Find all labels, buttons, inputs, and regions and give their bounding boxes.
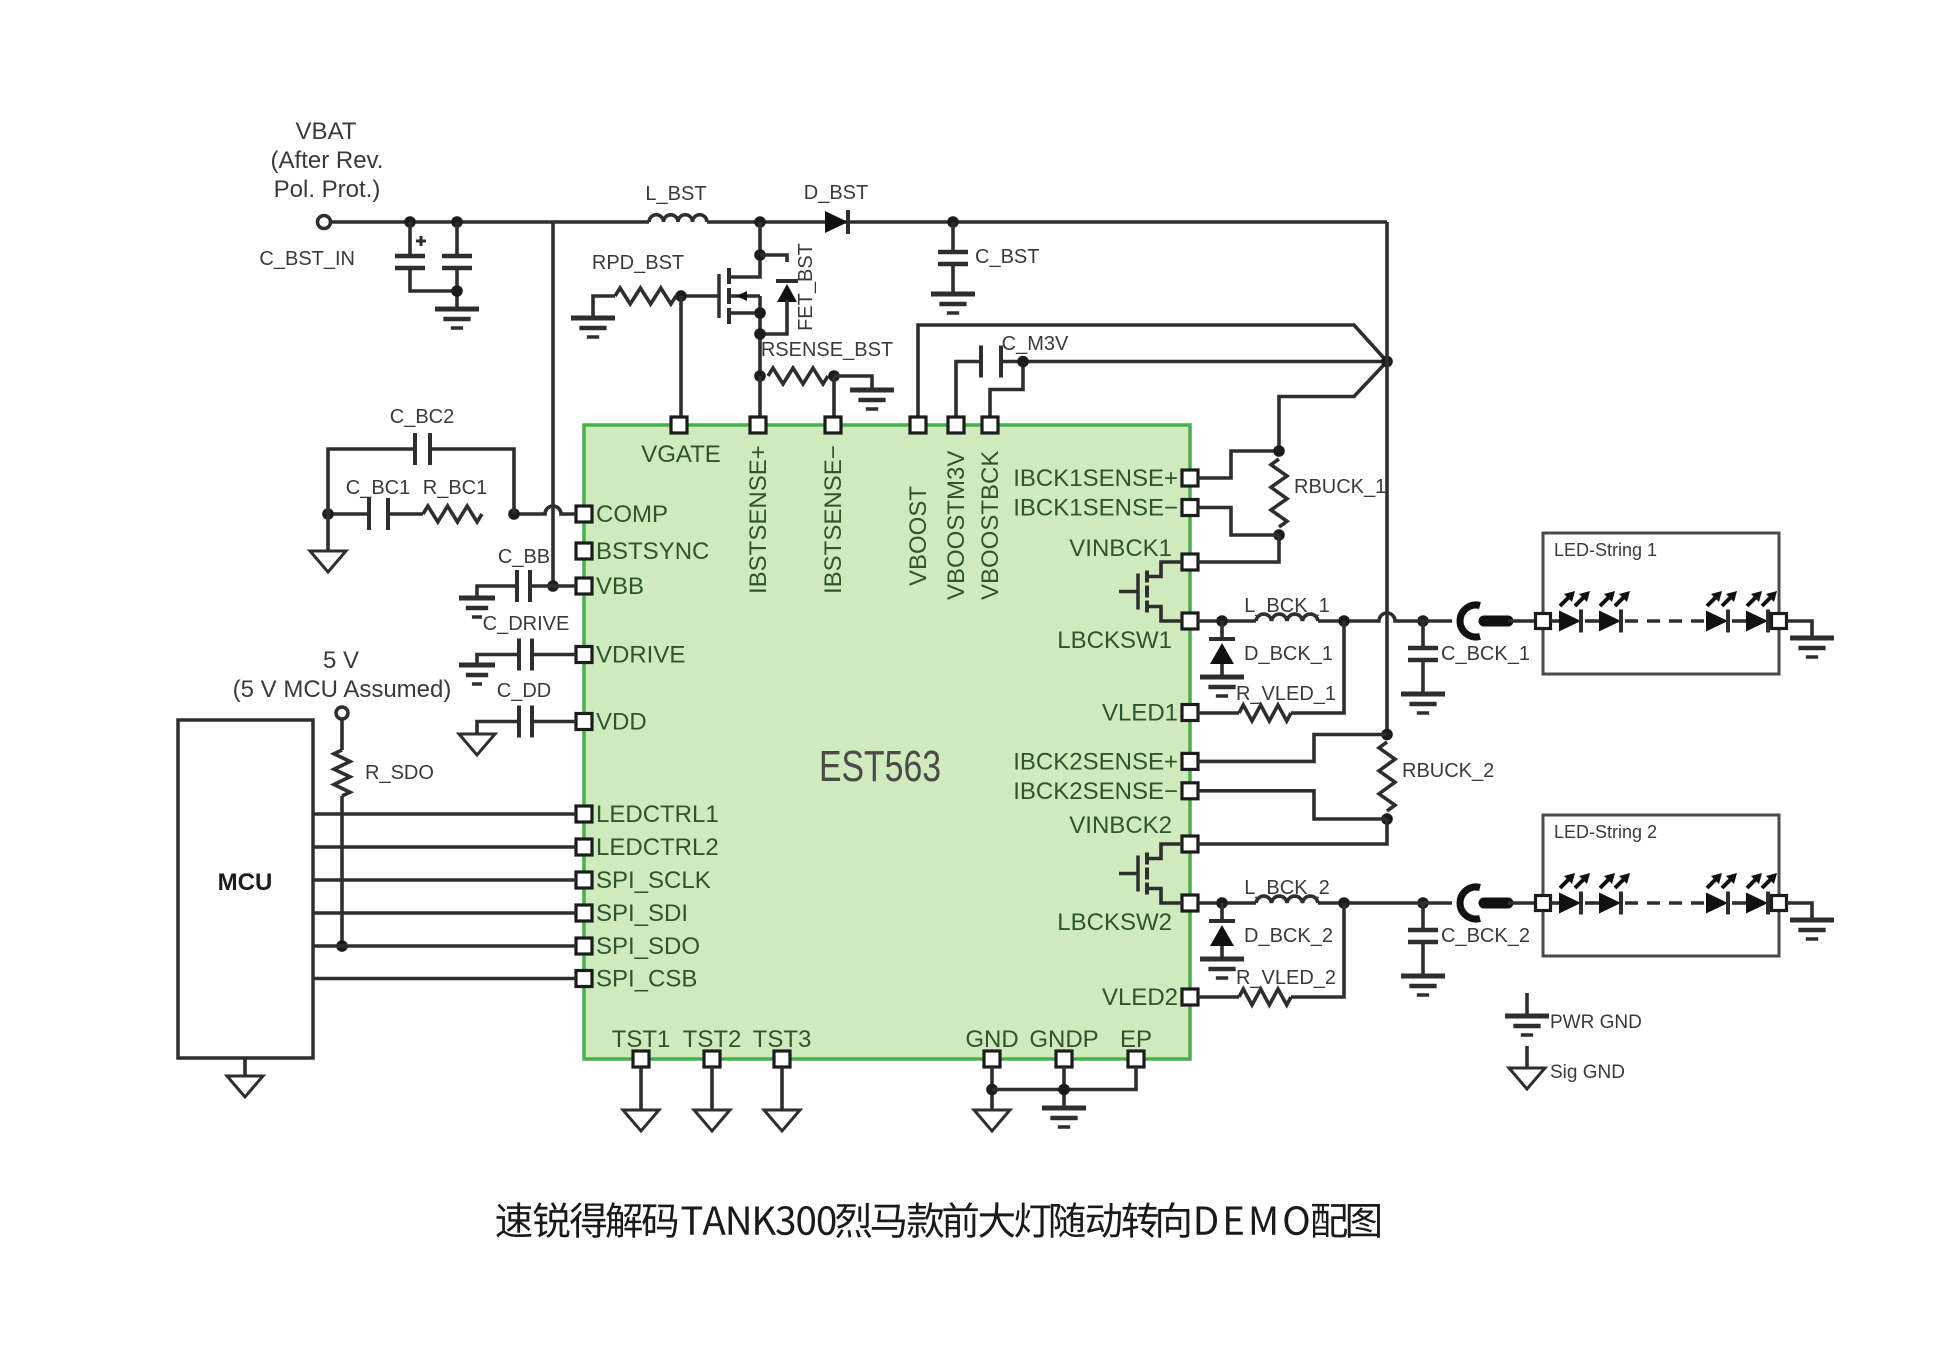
wire boost output vertical — [1385, 222, 1389, 735]
pin SPI_CSB — [576, 971, 592, 987]
wire D_BCK_1 anode lead — [1220, 664, 1224, 677]
wire RPD_BST left lead — [593, 296, 615, 318]
node junction RBUCK_2 bottom — [1381, 813, 1393, 825]
pin VBOOST — [910, 417, 926, 433]
wire VBAT branch to VBB — [551, 222, 555, 586]
svg-text:(5 V MCU Assumed): (5 V MCU Assumed) — [233, 676, 452, 703]
pin BSTSYNC — [576, 543, 592, 559]
pin LBCKSW2 — [1182, 895, 1198, 911]
svg-text:GND: GND — [965, 1026, 1018, 1053]
wire LED string2 to ground — [1787, 903, 1812, 920]
svg-text:IBSTSENSE+: IBSTSENSE+ — [745, 445, 772, 594]
pin VLED1 — [1182, 705, 1198, 721]
transistor Q_BUCK1 — [1136, 574, 1140, 610]
svg-text:C_BST_IN: C_BST_IN — [259, 248, 355, 270]
pin IBCK1SENSE&#8722; — [1182, 500, 1198, 516]
wire connector1 to LED string — [1508, 619, 1535, 623]
svg-text:R_VLED_1: R_VLED_1 — [1236, 683, 1336, 705]
node junction FET_BST source — [754, 307, 766, 319]
resistor R_VLED_1 — [1239, 705, 1291, 721]
node junction GNDP — [1058, 1084, 1070, 1096]
wire VBOOSTM3V lead — [956, 362, 981, 418]
wire VBOOSTBCK lead — [990, 362, 1023, 418]
pin LED-String1 in — [1536, 614, 1551, 629]
LED string 1 diodes — [1551, 619, 1559, 623]
ground LED string 1 — [1790, 636, 1834, 641]
svg-text:TST3: TST3 — [753, 1026, 812, 1053]
wire R_VLED_2 to VLED2 — [1198, 995, 1239, 999]
svg-text:LED-String 2: LED-String 2 — [1554, 822, 1657, 842]
wire to connector 1 — [1415, 619, 1452, 623]
op-amp U1 chip EST563 body — [584, 425, 1190, 1059]
svg-text:FET_BST: FET_BST — [795, 243, 817, 331]
ground TST1 — [623, 1110, 659, 1131]
wire TST3 gnd lead — [780, 1067, 784, 1110]
svg-text:Sig GND: Sig GND — [1550, 1062, 1625, 1083]
capacitor C_M3V — [981, 346, 1001, 378]
wire to connector 2 — [1415, 901, 1452, 905]
ground LED string 2 — [1790, 918, 1834, 923]
svg-text:VINBCK2: VINBCK2 — [1069, 812, 1172, 839]
svg-text:LEDCTRL2: LEDCTRL2 — [596, 834, 719, 861]
pin VLED2 — [1182, 989, 1198, 1005]
pin TST2 — [704, 1051, 720, 1067]
LED-String 1 box — [1543, 533, 1779, 674]
svg-text:L_BCK_1: L_BCK_1 — [1244, 595, 1330, 617]
wire 5V to R_SDO — [340, 719, 344, 750]
wire RPD_BST to gate — [676, 294, 719, 298]
MCU box — [178, 720, 313, 1058]
svg-text:VLED2: VLED2 — [1102, 984, 1178, 1011]
ground TST2 — [694, 1110, 730, 1131]
wire connector2 to LED string — [1508, 901, 1535, 905]
wire IBSTSENSE+ lead — [758, 376, 762, 417]
ground MCU — [227, 1076, 263, 1097]
wire C_BC1 to R_BC1 — [388, 512, 423, 516]
svg-text:C_BB: C_BB — [498, 546, 550, 568]
node junction C_BCK_1 — [1417, 615, 1429, 627]
wire C_BST_IN cap2 bottom lead — [455, 268, 459, 309]
pin IBCK2SENSE&#8722; — [1182, 783, 1198, 799]
svg-text:GNDP: GNDP — [1029, 1026, 1098, 1053]
wire IBCK2SENSE- net — [1198, 791, 1387, 819]
transistor FET_BST — [717, 274, 721, 318]
svg-text:TST1: TST1 — [612, 1026, 671, 1053]
pin IBSTSENSE+ — [750, 417, 766, 433]
capacitor C_BST_IN (polarized) — [395, 254, 425, 259]
diode FET_BST body diode — [776, 279, 798, 283]
resistor R_BC1 — [423, 506, 482, 522]
node junction C_BST — [947, 216, 959, 228]
svg-text:D_BCK_2: D_BCK_2 — [1244, 925, 1333, 947]
svg-text:L_BST: L_BST — [645, 183, 706, 205]
svg-text:SPI_SCLK: SPI_SCLK — [596, 867, 711, 894]
wire D_BCK_1 top lead — [1220, 621, 1224, 639]
ground C_BB — [459, 596, 495, 601]
pin VBB — [576, 578, 592, 594]
pin VGATE — [671, 417, 687, 433]
node junction C_BC2 left — [322, 508, 334, 520]
wire MCU to LEDCTRL2 — [313, 845, 576, 849]
node junction RSENSE_BST right — [828, 370, 840, 382]
wire IBCK1SENSE- net — [1198, 508, 1279, 536]
node junction R_SDO/SPI_SDO — [336, 940, 348, 952]
svg-text:IBCK2SENSE−: IBCK2SENSE− — [1013, 778, 1178, 805]
svg-text:(After Rev.: (After Rev. — [271, 147, 384, 174]
svg-text:VDD: VDD — [596, 709, 647, 736]
pin SPI_SCLK — [576, 872, 592, 888]
wire LBCKSW1 net b — [1318, 613, 1415, 621]
wire TST1 gnd lead — [639, 1067, 643, 1110]
ground C_DD — [459, 734, 495, 755]
inductor L_BST — [649, 215, 707, 222]
wire IBCK1SENSE+ net — [1198, 451, 1279, 478]
svg-text:D_BST: D_BST — [804, 182, 868, 204]
ground RSENSE_BST — [850, 388, 894, 393]
resistor RSENSE_BST — [768, 368, 828, 384]
svg-text:LBCKSW2: LBCKSW2 — [1057, 909, 1172, 936]
wire VBOOST net — [918, 325, 1387, 417]
wire C_BB gnd lead — [477, 586, 517, 598]
inductor L_BCK_1 — [1256, 614, 1318, 621]
svg-text:VBAT: VBAT — [296, 118, 357, 145]
wire VDD lead — [532, 720, 576, 724]
node VBOOST star point — [1381, 356, 1393, 368]
wire RSENSE_BST to ground — [834, 376, 872, 390]
ground D_BCK_1 — [1200, 675, 1244, 680]
node junction L_BCK_2 out — [1338, 897, 1350, 909]
wire LBCKSW2 net b — [1318, 901, 1415, 905]
node junction GND — [986, 1084, 998, 1096]
node junction boost/RBUCK_2 — [1381, 729, 1393, 741]
wire R_VLED_1 branch — [1291, 621, 1344, 713]
diode D_BST — [825, 211, 848, 233]
wire MCU to LEDCTRL1 — [313, 812, 576, 816]
resistor RBUCK_2 — [1379, 742, 1395, 811]
wire FET_BST body diode anode — [760, 300, 787, 334]
svg-text:C_DRIVE: C_DRIVE — [483, 613, 570, 635]
ground C_BCK_2 — [1401, 974, 1445, 979]
pin COMP — [576, 506, 592, 522]
svg-text:VGATE: VGATE — [641, 441, 721, 468]
ground C_BCK_1 — [1401, 692, 1445, 697]
wire GNDP lead — [1062, 1067, 1066, 1108]
capacitor C_BB — [517, 570, 530, 602]
svg-text:VBOOSTBCK: VBOOSTBCK — [977, 451, 1004, 600]
pin SPI_SDO — [576, 938, 592, 954]
pin SPI_SDI — [576, 905, 592, 921]
svg-text:R_SDO: R_SDO — [365, 762, 434, 784]
svg-text:BSTSYNC: BSTSYNC — [596, 538, 709, 565]
pin GND — [984, 1051, 1000, 1067]
pin TST3 — [774, 1051, 790, 1067]
wire VBOOSTBCK net — [1001, 360, 1387, 364]
resistor RPD_BST — [615, 288, 676, 304]
node junction C_BST_IN b — [451, 216, 463, 228]
node junction C_BCK_2 — [1417, 897, 1429, 909]
pin TST1 — [633, 1051, 649, 1067]
wire MCU to SPI_SDO — [313, 944, 576, 948]
svg-text:LEDCTRL1: LEDCTRL1 — [596, 801, 719, 828]
ground D_BCK_2 — [1200, 957, 1244, 962]
wire C_BST top lead — [951, 222, 955, 252]
ground GND (signal) — [974, 1110, 1010, 1131]
LED string 2 diodes — [1551, 901, 1559, 905]
wire R_VLED_2 branch — [1291, 903, 1344, 997]
svg-text:R_BC1: R_BC1 — [423, 477, 487, 499]
svg-text:IBCK2SENSE+: IBCK2SENSE+ — [1013, 748, 1178, 775]
wire R_SDO to SPI_SDO — [340, 796, 344, 946]
caption 速锐得解码TANK300烈马款前大灯随动转向DEMO配图 — [496, 1202, 1380, 1238]
node junction VGATE/RPD_BST — [675, 290, 687, 302]
wire FET_BST drain lead — [729, 222, 760, 277]
pin VDRIVE — [576, 647, 592, 663]
svg-text:Pol. Prot.): Pol. Prot.) — [274, 176, 381, 203]
node junction L_BCK_1 out — [1338, 615, 1350, 627]
svg-text:RPD_BST: RPD_BST — [592, 252, 684, 274]
connector J2 (ferrite bead) — [1460, 887, 1480, 919]
wire C_BST_IN cap1 top lead — [408, 222, 412, 256]
wire COMP left branch — [328, 512, 369, 516]
capacitor C_BC1 — [369, 498, 388, 530]
capacitor C_BST — [938, 250, 968, 255]
wire VGATE lead — [679, 296, 683, 417]
node junction VBB — [547, 580, 559, 592]
wire IBSTSENSE- lead — [832, 376, 836, 417]
svg-text:RBUCK_1: RBUCK_1 — [1294, 476, 1386, 498]
pin VINBCK1 — [1182, 554, 1198, 570]
node VBAT input terminal — [318, 216, 331, 229]
svg-text:C_BST: C_BST — [975, 246, 1039, 268]
diode D_BCK_1 — [1209, 637, 1235, 641]
svg-text:C_DD: C_DD — [497, 680, 551, 702]
node junction D_BCK_1 — [1216, 615, 1228, 627]
wire LBCKSW1 net a — [1198, 619, 1256, 623]
ground PWR GND symbol — [1525, 993, 1529, 1016]
wire VBB lead — [530, 584, 576, 588]
ground COMP network — [310, 551, 346, 572]
pin LEDCTRL1 — [576, 806, 592, 822]
pin IBCK1SENSE+ — [1182, 470, 1198, 486]
wire MCU to SPI_SCLK — [313, 878, 576, 882]
wire C_BC2 loop left — [328, 449, 415, 514]
svg-text:LBCKSW1: LBCKSW1 — [1057, 627, 1172, 654]
node junction C_BST_IN gnd — [451, 285, 463, 297]
wire COMP lead with hop — [514, 506, 576, 514]
svg-text:IBCK1SENSE−: IBCK1SENSE− — [1013, 495, 1178, 522]
capacitor C_DRIVE — [519, 639, 532, 671]
ground C_BST — [931, 292, 975, 297]
ground GNDP (power) — [1042, 1106, 1086, 1111]
svg-text:IBCK1SENSE+: IBCK1SENSE+ — [1013, 465, 1178, 492]
ground C_BST_IN — [435, 307, 479, 312]
svg-text:C_BC1: C_BC1 — [346, 477, 410, 499]
ground TST3 — [764, 1110, 800, 1131]
wire VBAT rail left — [331, 220, 650, 224]
node junction C_BST_IN a — [404, 216, 416, 228]
pin LED-String1 out — [1772, 614, 1787, 629]
svg-text:LED-String 1: LED-String 1 — [1554, 540, 1657, 560]
wire COMP gnd lead — [326, 514, 330, 551]
wire C_BCK_1 bottom lead — [1421, 660, 1425, 694]
pin IBCK2SENSE+ — [1182, 753, 1198, 769]
svg-text:RBUCK_2: RBUCK_2 — [1402, 760, 1494, 782]
svg-text:PWR GND: PWR GND — [1550, 1012, 1642, 1033]
wire C_BC2 loop right — [430, 449, 514, 514]
wire LBCKSW2 net a — [1198, 901, 1256, 905]
capacitor C_BCK_2 — [1408, 928, 1438, 933]
pin VDD — [576, 714, 592, 730]
ground C_DRIVE — [459, 663, 495, 668]
wire MCU to SPI_SDI — [313, 911, 576, 915]
svg-text:C_BCK_2: C_BCK_2 — [1441, 925, 1530, 947]
node junction C_M3V/VBOOSTBCK — [1017, 356, 1029, 368]
wire VBOOSTBCK branch to RBUCK_1 — [1279, 362, 1387, 452]
pin LED-String2 out — [1772, 896, 1787, 911]
wire VBAT rail right — [707, 220, 1387, 224]
resistor RBUCK_1 — [1271, 459, 1287, 527]
node 5V terminal — [336, 707, 348, 719]
node junction RBUCK_1 bottom — [1273, 529, 1285, 541]
svg-text:SPI_SDO: SPI_SDO — [596, 933, 700, 960]
svg-text:L_BCK_2: L_BCK_2 — [1244, 877, 1330, 899]
connector J1 (ferrite bead) — [1460, 605, 1480, 637]
svg-text:EST563: EST563 — [819, 742, 941, 791]
svg-text:VINBCK1: VINBCK1 — [1069, 535, 1172, 562]
node junction RBUCK_1 top — [1273, 445, 1285, 457]
svg-text:C_BC2: C_BC2 — [390, 406, 454, 428]
pin VBOOSTM3V — [948, 417, 964, 433]
pin LBCKSW1 — [1182, 613, 1198, 629]
wire C_BCK_2 top lead — [1421, 903, 1425, 930]
svg-text:VDRIVE: VDRIVE — [596, 642, 685, 669]
wire RBUCK_1 to VINBCK1 — [1198, 535, 1279, 562]
svg-text:R_VLED_2: R_VLED_2 — [1236, 967, 1336, 989]
wire R_VLED_1 to VLED1 — [1198, 711, 1239, 715]
wire GND lead — [990, 1067, 994, 1110]
wire D_BCK_2 top lead — [1220, 903, 1224, 921]
wire C_BCK_1 top lead — [1421, 621, 1425, 648]
resistor R_SDO — [334, 750, 350, 796]
pin VINBCK2 — [1182, 836, 1198, 852]
node junction RSENSE_BST left — [754, 370, 766, 382]
svg-text:5 V: 5 V — [323, 647, 359, 674]
pin GNDP — [1056, 1051, 1072, 1067]
wire IBCK2SENSE+ net — [1198, 735, 1387, 762]
wire MCU to SPI_CSB — [313, 977, 576, 981]
svg-text:D_BCK_1: D_BCK_1 — [1244, 643, 1333, 665]
wire C_DD gnd lead — [477, 722, 519, 735]
svg-text:SPI_SDI: SPI_SDI — [596, 900, 688, 927]
wire MCU gnd lead — [243, 1058, 247, 1076]
svg-text:COMP: COMP — [596, 501, 668, 528]
svg-text:VBOOST: VBOOST — [905, 486, 932, 586]
pin IBSTSENSE- — [825, 417, 841, 433]
diode D_BCK_2 — [1209, 919, 1235, 923]
svg-text:RSENSE_BST: RSENSE_BST — [761, 339, 893, 361]
wire LED string1 to ground — [1787, 621, 1812, 638]
resistor R_VLED_2 — [1239, 989, 1291, 1005]
pin VBOOSTBCK — [982, 417, 998, 433]
wire C_BST_IN cap1 bottom lead — [410, 268, 457, 291]
node junction COMP net — [508, 508, 520, 520]
LED-String 2 box — [1543, 815, 1779, 956]
svg-text:SPI_CSB: SPI_CSB — [596, 966, 697, 993]
svg-text:VBOOSTM3V: VBOOSTM3V — [943, 451, 970, 600]
inductor L_BCK_2 — [1256, 896, 1318, 903]
capacitor C_BCK_1 — [1408, 646, 1438, 651]
svg-text:C_M3V: C_M3V — [1002, 333, 1069, 355]
svg-text:VLED1: VLED1 — [1102, 700, 1178, 727]
wire C_BCK_2 bottom lead — [1421, 942, 1425, 976]
svg-text:TST2: TST2 — [683, 1026, 742, 1053]
wire C_BST_IN cap2 top lead — [455, 222, 459, 256]
wire TST2 gnd lead — [710, 1067, 714, 1110]
capacitor C_BST_IN second — [442, 254, 472, 259]
ground Sig GND symbol — [1525, 1046, 1529, 1068]
pin EP — [1128, 1051, 1144, 1067]
svg-text:C_BCK_1: C_BCK_1 — [1441, 643, 1530, 665]
svg-text:VBB: VBB — [596, 573, 644, 600]
pin LED-String2 in — [1536, 896, 1551, 911]
transistor Q_BUCK2 — [1136, 856, 1140, 892]
node junction L_BST/FET_BST — [754, 216, 766, 228]
wire GND/GNDP/EP bus — [992, 1067, 1136, 1090]
wire D_BCK_2 anode lead — [1220, 946, 1224, 959]
node junction FET_BST drain — [754, 249, 766, 261]
pin LEDCTRL2 — [576, 839, 592, 855]
wire C_BST bottom lead — [951, 264, 955, 294]
svg-text:EP: EP — [1120, 1026, 1152, 1053]
wire C_DRIVE gnd lead — [477, 655, 519, 666]
node junction D_BCK_2 — [1216, 897, 1228, 909]
wire VDRIVE lead — [532, 653, 576, 657]
capacitor C_DD — [519, 706, 532, 738]
node junction body diode anode — [754, 328, 766, 340]
svg-text:IBSTSENSE−: IBSTSENSE− — [820, 445, 847, 594]
capacitor C_BC2 — [415, 433, 430, 465]
wire FET_BST body diode top — [760, 255, 787, 262]
svg-text:MCU: MCU — [218, 869, 273, 896]
ground RPD_BST — [571, 316, 615, 321]
wire RBUCK_2 to VINBCK2 — [1198, 819, 1387, 844]
